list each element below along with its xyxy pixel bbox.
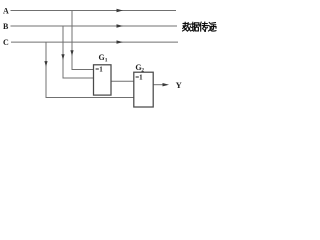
svg-text:G: G: [99, 53, 105, 62]
svg-text:A: A: [3, 6, 9, 15]
svg-text:=1: =1: [95, 66, 103, 74]
svg-text:Y: Y: [176, 80, 182, 90]
svg-text:C: C: [3, 38, 9, 47]
svg-text:B: B: [3, 22, 9, 31]
svg-text:1: 1: [105, 58, 108, 64]
svg-text:=1: =1: [135, 73, 143, 81]
